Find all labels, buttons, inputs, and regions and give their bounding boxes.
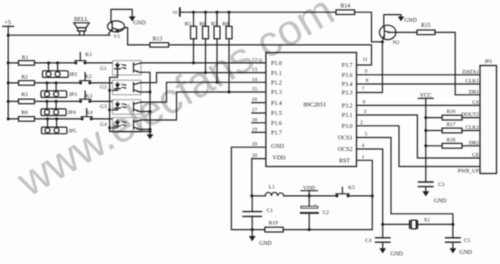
connector JP4 (41, 100, 76, 116)
svg-text:GND: GND (404, 18, 417, 24)
svg-text:R1: R1 (22, 55, 29, 61)
svg-text:P1.5: P1.5 (271, 111, 282, 117)
svg-text:13: 13 (252, 67, 258, 73)
optocoupler G3 (100, 100, 141, 115)
node: cathode bus junctions (108, 89, 111, 129)
svg-text:G4: G4 (100, 122, 107, 128)
svg-text:P3.1: P3.1 (342, 113, 353, 119)
IC U1 right pin labels (338, 63, 353, 164)
IC U1 right pin numbers (360, 57, 369, 160)
switch K1 (74, 52, 92, 64)
svg-text:K2: K2 (85, 74, 92, 80)
wire: R13 to pin11 P3.7 (169, 45, 372, 65)
svg-text:DOUT2: DOUT2 (461, 112, 479, 118)
svg-text:BELL: BELL (74, 17, 89, 23)
resistor R15 (417, 23, 435, 34)
svg-text:R8: R8 (222, 22, 229, 28)
resistor R6 (199, 12, 208, 72)
svg-text:9: 9 (365, 69, 368, 75)
switch K5 (335, 185, 372, 197)
resistor R6 (row 4) (8, 110, 82, 121)
watermark (10, 0, 343, 207)
svg-text:OCS1: OCS1 (338, 136, 353, 142)
IC U1 left pin numbers (252, 57, 258, 159)
IC U1 left pin stubs P1.4-P1.7 (252, 103, 266, 133)
resistor R3 (8, 92, 80, 104)
svg-text:K4: K4 (86, 110, 93, 116)
svg-text:R3: R3 (21, 92, 28, 98)
svg-text:L1: L1 (269, 185, 275, 191)
svg-text:P3.2: P3.2 (342, 104, 353, 110)
node: R5 tap (192, 61, 195, 64)
power flag VDD (reset circuit) (301, 186, 317, 198)
connector JP3 (41, 81, 77, 97)
svg-text:GND: GND (271, 144, 285, 150)
+5 supply terminal (3, 20, 14, 36)
svg-text:V1: V1 (113, 34, 120, 40)
svg-text:P1.3: P1.3 (271, 90, 282, 96)
node: pull-up taps on VCC (424, 116, 427, 147)
wire: RST pin1 (357, 160, 373, 196)
svg-text:R17: R17 (447, 122, 456, 128)
svg-text:X1: X1 (424, 219, 431, 224)
svg-text:+: + (314, 202, 317, 207)
capacitor C5 (446, 224, 471, 248)
connector JP5 (42, 117, 77, 134)
svg-text:14: 14 (252, 77, 258, 83)
svg-text:C5: C5 (464, 238, 471, 244)
svg-text:P3.4: P3.4 (342, 82, 353, 88)
wire: R14 to N2 emitter node (355, 12, 383, 42)
wire: P3.6 to DATA1 (357, 74, 481, 76)
wire: G2 collector to P1.1 (141, 73, 266, 83)
svg-text:8: 8 (366, 78, 369, 84)
svg-text:R14: R14 (340, 4, 350, 10)
optocoupler G4 (100, 118, 141, 133)
svg-text:DATA1: DATA1 (462, 69, 479, 75)
power flag VDD (top rail terminal) (172, 8, 180, 16)
optocoupler G1 (100, 61, 141, 76)
ground (bottom left) (249, 230, 272, 247)
svg-text:GND: GND (259, 241, 272, 247)
svg-text:R7: R7 (211, 22, 218, 28)
svg-text:JP2: JP2 (69, 72, 77, 78)
optocoupler G2 (100, 80, 141, 95)
power flag VCC (418, 93, 433, 182)
svg-text:+5: +5 (4, 20, 11, 27)
JP1 pin labels (458, 69, 480, 174)
wire: bell feed (8, 34, 110, 36)
wire: P3.0 to PWR_UP (357, 126, 481, 167)
node: N2 emitter junction (381, 40, 384, 43)
svg-text:K5: K5 (348, 185, 355, 191)
svg-text:6: 6 (363, 100, 366, 106)
svg-text:R16: R16 (447, 109, 456, 115)
wire: V1 emitter to R13 (125, 28, 150, 45)
svg-text:12: 12 (252, 57, 258, 63)
connector JP2 (43, 61, 78, 77)
wire: left +5 rail (7, 35, 9, 119)
svg-text:1: 1 (362, 154, 365, 160)
svg-text:VDD: VDD (273, 155, 287, 161)
svg-text:K1: K1 (85, 52, 92, 58)
svg-text:R15: R15 (421, 23, 431, 29)
inductor L1 (252, 185, 337, 196)
svg-text:GND: GND (434, 199, 447, 205)
resistor R18 (426, 137, 480, 148)
svg-text:GND: GND (133, 21, 146, 27)
svg-text:R2: R2 (21, 75, 28, 81)
svg-text:N2: N2 (393, 40, 400, 46)
resistor R13 (150, 36, 169, 47)
wire: P3.1 to CE (357, 115, 481, 158)
svg-text:P1.4: P1.4 (271, 101, 282, 107)
svg-text:P3.6: P3.6 (342, 73, 353, 79)
svg-text:CE: CE (472, 153, 480, 159)
wire: K1 to G1 (85, 62, 113, 64)
node: R7 tap (216, 81, 219, 84)
svg-text:P1.7: P1.7 (271, 131, 282, 137)
switch K2 (79, 73, 92, 85)
ground (top, near V1) (129, 16, 146, 26)
svg-text:P1.2: P1.2 (271, 81, 282, 87)
resistor R5 (185, 12, 197, 63)
capacitor C1 (243, 196, 273, 230)
svg-text:GND: GND (390, 252, 403, 258)
wire: G1 collector to P1.0 (141, 62, 266, 64)
svg-text:R19: R19 (269, 220, 278, 226)
node: rail junctions (7, 34, 10, 121)
svg-text:C2: C2 (323, 210, 330, 216)
svg-text:CLK1: CLK1 (466, 79, 480, 85)
node: RST junction (371, 195, 374, 198)
svg-text:4: 4 (362, 143, 365, 149)
wire: OCS2 to crystal left (357, 149, 383, 224)
svg-text:P3.0: P3.0 (342, 124, 353, 130)
svg-text:OCS2: OCS2 (338, 147, 353, 153)
svg-text:K3: K3 (86, 94, 93, 100)
svg-text:DR1: DR1 (469, 89, 479, 95)
svg-text:CS: CS (472, 100, 479, 106)
svg-text:C1: C1 (267, 208, 274, 214)
svg-text:JP1: JP1 (484, 59, 492, 65)
capacitor C3 (419, 182, 445, 191)
wire: reset net rail (283, 196, 372, 230)
node: ground rail at C1 (251, 228, 254, 231)
svg-text:R18: R18 (447, 137, 456, 143)
wire: R15 down to DR1 (435, 32, 455, 94)
wire: VDD pin20 down to L1 node (252, 159, 266, 196)
svg-text:PWR_UP: PWR_UP (458, 168, 479, 174)
crystal X1 (383, 219, 453, 229)
svg-text:P3.3: P3.3 (342, 91, 353, 97)
svg-text:GND: GND (459, 250, 472, 256)
svg-text:P1.6: P1.6 (271, 121, 282, 127)
resistor R1 (8, 55, 75, 65)
svg-text:G2: G2 (100, 84, 107, 90)
svg-text:C4: C4 (365, 238, 372, 244)
node: crystal ends (381, 223, 454, 226)
wire: V1 collector to ground (111, 9, 132, 21)
svg-text:JP4: JP4 (68, 110, 76, 116)
svg-text:5: 5 (365, 132, 368, 138)
svg-text:P3.7: P3.7 (342, 63, 353, 69)
resistor R7 (211, 12, 220, 82)
svg-text:R13: R13 (153, 36, 163, 42)
transistor V1 (108, 21, 126, 40)
resistor R16 (426, 109, 480, 120)
wire: VDD top rail (181, 11, 337, 13)
wire: OCS1 to crystal right (357, 138, 453, 225)
IC U1 89C2051 (266, 53, 357, 167)
wire: LED cathode common bus (110, 75, 150, 132)
svg-text:15: 15 (252, 87, 258, 93)
svg-text:DR2: DR2 (469, 140, 479, 146)
wire: K2 to G2 (90, 82, 113, 84)
resistor R19 (265, 220, 283, 232)
transistor N2 (380, 25, 400, 46)
resistor R2 (8, 75, 80, 86)
svg-text:2: 2 (360, 120, 363, 126)
wire: K4 to G4 (91, 118, 112, 120)
svg-text:R6: R6 (21, 110, 28, 116)
node: rail taps for R5-R8 (192, 11, 231, 14)
wire: N2 top to ground (384, 15, 401, 26)
wire: phototransistor emitter bus (141, 72, 150, 131)
svg-text:VD: VD (172, 11, 178, 15)
capacitor C2 (electrolytic) (301, 196, 329, 231)
resistor R8 (222, 12, 232, 92)
ground (under C3) (422, 191, 446, 204)
node: R8 tap (228, 91, 231, 94)
resistor R14 (336, 4, 355, 15)
svg-text:11: 11 (362, 57, 367, 63)
svg-text:G1: G1 (100, 66, 107, 72)
wire: G3 collector to P1.2 (141, 82, 266, 102)
svg-text:C3: C3 (438, 182, 445, 188)
resistor R17 (426, 122, 480, 133)
ground (under C4) (379, 248, 403, 257)
node: L1 input (250, 194, 253, 197)
connector JP1 (480, 59, 497, 173)
svg-text:G3: G3 (100, 104, 107, 110)
wire: K3 to G3 (90, 100, 113, 102)
svg-text:3: 3 (364, 109, 367, 115)
wire: P3.2 to CS (357, 104, 481, 106)
svg-text:JP3: JP3 (69, 92, 77, 98)
wire: P3.4 to CLK1 (357, 83, 481, 85)
svg-text:89C2051: 89C2051 (304, 101, 327, 108)
svg-text:7: 7 (362, 87, 365, 93)
ground (near N2) (398, 17, 417, 25)
switch K4 (81, 109, 93, 121)
svg-text:R6: R6 (199, 22, 206, 28)
svg-text:RST: RST (339, 159, 350, 165)
svg-text:JP5: JP5 (68, 129, 76, 135)
switch K3 (79, 91, 92, 103)
svg-text:CLK2: CLK2 (466, 125, 480, 131)
ground (under C5) (450, 248, 472, 256)
node: R6 tap (204, 71, 207, 74)
svg-text:R5: R5 (185, 22, 192, 28)
node: emitter bus junctions (149, 91, 152, 134)
ground (under optocouplers) (147, 132, 154, 140)
wire: G4 collector to P1.3 (141, 92, 266, 120)
bell BELL (74, 17, 89, 35)
wire: GND pin10 to ground rail (231, 147, 266, 229)
svg-text:P1.1: P1.1 (271, 71, 282, 77)
wire: P3.3 to N2 (357, 42, 383, 93)
wire: DR1 into JP1 (455, 94, 480, 96)
wire: N2 collector to R15 (396, 31, 417, 33)
svg-text:P1.0: P1.0 (271, 61, 282, 67)
capacitor C4 (365, 224, 390, 248)
IC U1 left pin labels (271, 61, 286, 161)
